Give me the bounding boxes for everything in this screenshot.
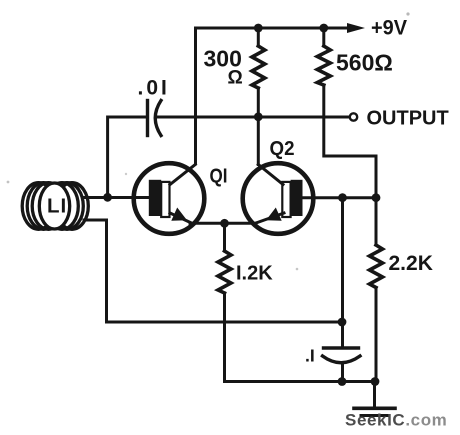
wire: L1 top terminal to Q1 base bbox=[84, 196, 152, 199]
node: junction dot 560 ohm / 2.2K bbox=[372, 193, 381, 202]
svg-text:I.2K: I.2K bbox=[236, 263, 273, 285]
svg-text:.0I: .0I bbox=[138, 77, 170, 100]
node: junction dot L1 bottom / feedback line bbox=[338, 318, 347, 327]
resistor R 560 ohm bbox=[317, 28, 376, 198]
svg-text:QI: QI bbox=[210, 166, 228, 188]
wire: output node rail bbox=[156, 116, 350, 119]
svg-text:SeekIC.com: SeekIC.com bbox=[345, 411, 447, 430]
wire: +9V supply rail top bbox=[196, 28, 352, 164]
svg-text:Q2: Q2 bbox=[270, 138, 295, 160]
resistor R 1.2K bbox=[218, 223, 375, 381]
wire: Q2 base rail to divider bbox=[300, 196, 376, 199]
svg-text:OUTPUT: OUTPUT bbox=[367, 108, 449, 130]
ground bbox=[354, 382, 395, 416]
transistor Q2 bbox=[243, 163, 314, 234]
node: junction dot emitters bbox=[220, 219, 229, 228]
node: junction dot cap .1 / ground rail bbox=[338, 377, 347, 386]
resistor R 2.2K bbox=[370, 198, 383, 382]
capacitor C .1 top plate bbox=[324, 346, 359, 349]
svg-text:Ω: Ω bbox=[228, 68, 243, 89]
svg-text:+9V: +9V bbox=[371, 17, 407, 40]
node: junction dot supply/560 ohm bbox=[319, 24, 328, 33]
capacitor C .01 left plate bbox=[146, 101, 149, 136]
terminal: output circle bbox=[350, 113, 357, 120]
node: junction dot supply/300 ohm bbox=[254, 24, 263, 33]
inductor L1 coil bbox=[22, 183, 88, 230]
wire: cap .1 bottom lead bbox=[341, 363, 344, 382]
svg-text:LI: LI bbox=[47, 195, 67, 218]
transistor Q1 bbox=[134, 163, 205, 234]
node: junction dot Q2 base / feedback line bbox=[338, 193, 347, 202]
node: junction dot 2.2K / ground rail bbox=[371, 377, 380, 386]
svg-text:.I: .I bbox=[305, 346, 315, 366]
node: junction dot 300 ohm / Q2 collector / output bbox=[254, 112, 263, 121]
wire: Q2 collector lead up to output node bbox=[257, 117, 260, 165]
+9V arrow head bbox=[347, 23, 365, 33]
wire: L1 bottom terminal down and across bbox=[84, 220, 342, 322]
wire: common emitter link bbox=[190, 222, 256, 225]
wire: cap .01 left to L1 top node bbox=[108, 117, 146, 196]
node: junction dot L1 / Q1 base / .01 cap bbox=[103, 193, 112, 202]
svg-text:560Ω: 560Ω bbox=[336, 50, 393, 76]
svg-text:2.2K: 2.2K bbox=[389, 252, 433, 275]
resistor R 300 ohm bbox=[252, 28, 265, 117]
capacitor C .01 right curved plate bbox=[155, 101, 161, 136]
wire: feedback node down to cap .1 bbox=[341, 198, 344, 348]
capacitor C .1 bottom curved plate bbox=[323, 356, 361, 363]
